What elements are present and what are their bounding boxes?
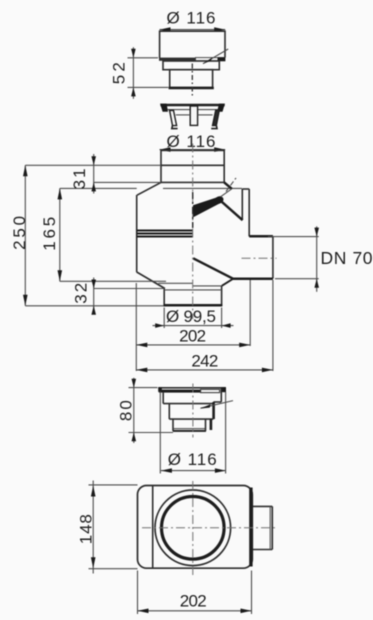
plan vertical center line [192, 481, 194, 577]
outlet socket outer end line [271, 506, 273, 549]
arrow top 52 [131, 49, 136, 58]
arrow bottom 52 [131, 87, 136, 96]
joint band line 1 [137, 229, 193, 231]
extension line spigot top level [94, 288, 165, 290]
dimension line 32 [93, 278, 95, 314]
joint band line 2 [137, 232, 193, 234]
crown right leg [212, 110, 219, 125]
body plan rounded rectangle [138, 486, 253, 569]
arrow left Ø116 funnel [161, 468, 172, 473]
dimension line 202 [136, 344, 250, 346]
outlet socket left wall [241, 189, 243, 220]
svg-text:148: 148 [76, 514, 95, 544]
body neck outline [161, 150, 224, 182]
arrow bottom 250 [23, 295, 28, 306]
cap seal band dark left [159, 58, 196, 61]
extension line inner shoulder level [60, 187, 137, 189]
left inner cone line [158, 282, 192, 284]
outlet pipe top edge thick [249, 235, 273, 238]
plan horizontal center line [142, 527, 277, 529]
body left edge [136, 195, 138, 272]
extension stub Ø116 funnel right [225, 392, 227, 474]
cap leader line [203, 49, 228, 64]
funnel step3 left wall [172, 419, 174, 431]
funnel right outer wall [220, 388, 222, 402]
crown center tab [190, 106, 197, 125]
funnel step1 left wall [162, 393, 164, 404]
extension line flange level [25, 164, 161, 166]
svg-text:Ø 99,5: Ø 99,5 [166, 307, 216, 326]
outlet horizontal center line [242, 257, 277, 259]
outlet pipe bottom edge thick [233, 278, 273, 281]
svg-text:Ø 116: Ø 116 [167, 132, 216, 151]
arrow left Ø116 neck [160, 147, 171, 152]
arrow DN70 lower (outside) [314, 279, 319, 288]
extension line DN70 top [268, 236, 319, 238]
arrow 32 upper (outside) [91, 280, 96, 289]
extension line 148 top [89, 484, 138, 486]
outlet pipe right edge [272, 236, 274, 278]
crown right end blob [217, 104, 225, 112]
arrow right Ø116 neck [214, 147, 225, 152]
extension line 148 bottom [89, 568, 138, 570]
funnel tube bottom edge [173, 430, 206, 432]
dimension line 165 [59, 188, 61, 281]
dimension line 250 [24, 165, 26, 305]
dimension line Ø116 funnel [161, 470, 226, 472]
arrow 31 lower (outside) [91, 182, 96, 191]
crown right foot [211, 126, 217, 129]
dimension line 31 [93, 154, 95, 194]
funnel step1 bottom line [163, 403, 213, 405]
extension line body bottom corner level [60, 280, 166, 282]
spigot bottom thick edge [164, 304, 223, 307]
flapper axis dash line [226, 178, 236, 192]
extension line DN70 bottom [275, 278, 319, 280]
extension line 80 bottom [129, 432, 174, 434]
funnel inner diagonal A thick [193, 258, 233, 279]
crown left leg [170, 110, 177, 125]
cap seal band outline right [196, 58, 226, 61]
svg-text:202: 202 [180, 592, 207, 611]
spigot left edge [163, 289, 165, 306]
funnel rim band outline right [201, 389, 220, 392]
cap center line [191, 64, 193, 96]
dimension line 242 [136, 369, 273, 371]
funnel leader arrowhead [200, 404, 211, 408]
dimension line 52 [132, 47, 134, 99]
dimension line Ø116 neck [160, 149, 226, 151]
funnel leader line [201, 401, 234, 409]
flapper valve black band [193, 196, 222, 217]
cap neck bottom thick edge [169, 87, 214, 90]
body bottom-left diagonal [137, 272, 165, 289]
funnel step3 right wall thick [210, 419, 213, 430]
cap leader arrowhead [203, 57, 213, 64]
crown top bar [160, 104, 224, 106]
inner circle thick [162, 497, 225, 560]
cap body outline [160, 31, 225, 58]
outlet socket top edge [253, 505, 272, 507]
arrow 242 right [262, 368, 273, 373]
cap lower neck [170, 70, 213, 88]
inner shoulder line [163, 187, 242, 189]
extension line 80 top [129, 387, 158, 389]
cap middle step [163, 61, 219, 70]
dimension line Ø116 cap [160, 29, 226, 31]
extension stub Ø116 funnel left [159, 392, 161, 474]
arrow 80 lower (outside) [132, 433, 137, 442]
body plan right thick edge [249, 488, 252, 567]
svg-text:250: 250 [10, 216, 29, 250]
dimension line 202 plan [138, 610, 252, 612]
arrow bottom 165 [58, 270, 63, 281]
extension line Ø99,5 left [163, 308, 165, 329]
arrow 202 plan right [241, 609, 252, 614]
svg-text:202: 202 [179, 327, 206, 346]
funnel tube inner bottom line [173, 428, 205, 430]
funnel step2 right wall thick [212, 402, 215, 419]
arrow Ø99,5 right (outside) [222, 323, 231, 328]
cap seal band black right end [218, 57, 226, 61]
extension line shoulder level [94, 181, 161, 183]
funnel top right corner tab [221, 387, 226, 392]
body plan flange line [152, 486, 154, 569]
funnel step2 bottom line [169, 418, 213, 420]
arrow DN70 upper (outside) [314, 228, 319, 237]
svg-text:242: 242 [191, 352, 218, 371]
extension line spigot bottom level [25, 305, 163, 307]
crown left foot [172, 126, 178, 129]
dimension line DN70 [316, 226, 318, 291]
inner cone line [193, 285, 222, 287]
arrow 202 plan left [138, 609, 149, 614]
funnel step1 right ledge [213, 401, 221, 403]
funnel top left corner tab [158, 387, 162, 392]
svg-text:Ø 116: Ø 116 [168, 450, 217, 469]
arrow right Ø116 funnel [215, 468, 226, 473]
crown bottom edge left segment [176, 114, 190, 116]
dimension line 148 [92, 481, 94, 574]
extension line 52 bottom [128, 86, 169, 88]
funnel diagonal to socket thick [222, 202, 243, 220]
outlet socket right wall [248, 189, 250, 236]
arrow top 250 [23, 165, 28, 176]
spigot right edge [221, 286, 223, 306]
arrow 242 left [136, 368, 147, 373]
outer circle [155, 490, 231, 566]
joint band line 3 [137, 235, 193, 237]
extension line 202 right vertical [249, 280, 251, 346]
arrow 202 left [136, 343, 147, 348]
arrow Ø99,5 left (outside) [155, 323, 164, 328]
crown bottom edge right segment [198, 114, 213, 116]
crown bar lower line [166, 109, 221, 111]
center line dark segment at flapper [192, 192, 194, 228]
outlet socket inner end line [269, 506, 271, 549]
funnel top rim line [158, 387, 225, 389]
arrow 202 right [239, 343, 250, 348]
extension line 202 plan right [251, 571, 253, 615]
dimension line 80 [133, 378, 135, 443]
body neck flange line [161, 164, 224, 166]
shoulder diagonal right thick [224, 182, 232, 188]
svg-text:DN 70: DN 70 [321, 248, 373, 268]
arrow top 165 [58, 188, 63, 199]
arrow right Ø116 cap [214, 27, 225, 32]
body vertical center line [192, 144, 194, 320]
crown left end blob [160, 104, 168, 112]
funnel tube right wall [205, 419, 207, 431]
funnel outer diagonal B [222, 279, 233, 286]
extension line 202/242 left vertical [135, 283, 137, 371]
svg-text:165: 165 [40, 217, 59, 251]
flapper hinge blob [213, 195, 224, 205]
arrow 80 upper (outside) [132, 379, 137, 388]
funnel center line [192, 384, 194, 438]
funnel rim dark band left [159, 390, 201, 393]
spigot inner top line [164, 289, 221, 291]
extension line 52 top [128, 57, 159, 59]
svg-text:Ø 116: Ø 116 [167, 9, 216, 28]
arrow bottom 148 [91, 557, 96, 568]
outlet socket top edge [242, 188, 249, 190]
arrow left Ø116 cap [160, 27, 171, 32]
extension line Ø99,5 right [221, 308, 223, 329]
extension line 202 plan left [137, 571, 139, 615]
shoulder diagonal left [137, 182, 161, 195]
arrow 31 upper (outside) [91, 156, 96, 165]
extension line 242 right vertical [272, 280, 274, 371]
dimension line Ø99,5 [153, 325, 234, 327]
flapper top thin diagonal [221, 189, 232, 197]
arrow top 148 [91, 486, 96, 497]
funnel step2 left wall [168, 404, 170, 420]
outlet socket bottom edge [253, 549, 272, 551]
arrow 32 lower (outside) [91, 306, 96, 315]
